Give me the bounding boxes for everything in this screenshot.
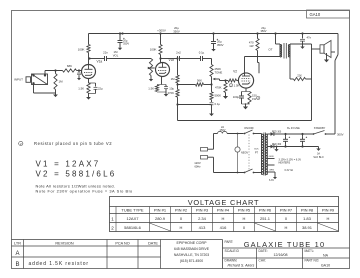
label B+ fuse xyxy=(287,127,300,130)
svg-text:B: B xyxy=(15,262,19,268)
wire cathode to ground xyxy=(88,93,90,96)
svg-text:B+ R FUSE: B+ R FUSE xyxy=(287,127,300,130)
svg-text:645 MASSMAN DRIVE: 645 MASSMAN DRIVE xyxy=(174,247,210,251)
capacitor 10u V1b cathode bypass xyxy=(164,86,168,88)
svg-text:413: 413 xyxy=(199,225,206,230)
svg-text:TONE: TONE xyxy=(215,71,223,75)
wire ground bus xyxy=(284,145,318,147)
svg-text:Note For 230V operation Fuse: Note For 230V operation Fuse = 3A Slo Bl… xyxy=(36,189,133,194)
wire V2 plate to OT primary xyxy=(245,57,281,77)
svg-text:NEON: NEON xyxy=(241,151,248,154)
wire center tap stub xyxy=(276,146,278,148)
label heater 6.3V xyxy=(269,179,274,182)
ground power supply xyxy=(313,147,323,159)
svg-text:GA10: GA10 xyxy=(310,12,321,17)
switch SW2 standby xyxy=(313,133,315,135)
capacitor 47n snubber xyxy=(302,34,304,39)
node B+ junctions xyxy=(121,32,303,34)
capacitor 100u 350V filter A xyxy=(285,136,287,139)
svg-text:PIN #4: PIN #4 xyxy=(217,208,230,213)
resistor 100K V1b plate xyxy=(159,45,162,55)
ground grid capacitor xyxy=(77,76,81,80)
svg-text:RED 300: RED 300 xyxy=(272,144,282,146)
svg-text:350V: 350V xyxy=(123,42,129,46)
svg-text:BLK: BLK xyxy=(254,149,259,151)
svg-text:GRN: GRN xyxy=(269,156,274,158)
wire filter cap 2 lower xyxy=(213,46,215,48)
wire tone cap to tone pot xyxy=(206,59,212,63)
wire OT secondary top to speaker xyxy=(290,44,312,79)
svg-text:300V: 300V xyxy=(337,133,344,137)
label heater current xyxy=(285,169,294,172)
ground tone network xyxy=(209,112,214,117)
svg-text:V2 = 5881/6L6: V2 = 5881/6L6 xyxy=(36,170,117,179)
resistor 470 5W screen xyxy=(256,39,259,51)
potentiometer 250K tone xyxy=(211,59,213,65)
ground snubber xyxy=(300,45,304,49)
svg-text:+305V: +305V xyxy=(157,29,166,33)
wire cathode net to ground xyxy=(245,103,247,105)
wire B+ raw rail xyxy=(284,133,313,135)
resistor 1.5K V1a cathode xyxy=(87,83,90,93)
svg-text:PART:: PART: xyxy=(225,240,234,244)
svg-text:100K: 100K xyxy=(150,48,157,52)
svg-text:VOLTAGE CHART: VOLTAGE CHART xyxy=(188,198,260,207)
svg-text:PIN #8: PIN #8 xyxy=(301,208,314,213)
fuse F1 2A 250V xyxy=(218,131,228,133)
svg-text:0.1µ: 0.1µ xyxy=(215,102,221,106)
ground heater tap xyxy=(273,175,277,179)
svg-text:V1a: V1a xyxy=(97,60,103,64)
svg-text:PIN #6: PIN #6 xyxy=(259,208,272,213)
wire V2 cathode xyxy=(245,88,247,91)
wire fuse to switch xyxy=(227,133,243,135)
input jack label xyxy=(14,78,23,82)
resistor 470K V2 grid leak xyxy=(224,79,226,81)
node unused xyxy=(237,120,239,122)
ground V2 cathode xyxy=(243,105,248,110)
svg-text:NA: NA xyxy=(323,254,329,258)
switch SW1 power bottom pole xyxy=(244,172,246,174)
svg-text:EPIPHONE CORP: EPIPHONE CORP xyxy=(177,241,208,245)
svg-text:1.83: 1.83 xyxy=(303,216,312,221)
wire B+ rail from filter to preamp plates xyxy=(89,34,339,135)
wire PT secondary HV top xyxy=(267,131,282,134)
wire speaker return xyxy=(326,53,328,58)
svg-text:OT: OT xyxy=(268,48,272,52)
wire grid stopper to V2 xyxy=(237,80,239,82)
voltage chart table xyxy=(110,197,339,232)
resistor 56K tone bridge xyxy=(196,83,204,86)
svg-text:100µ: 100µ xyxy=(233,95,240,99)
capacitor 0.1u tone leg xyxy=(211,100,213,102)
svg-text:VOL: VOL xyxy=(113,54,119,58)
svg-text:PART NO:: PART NO: xyxy=(305,259,320,263)
node +305V label xyxy=(157,29,166,33)
wire V1a plate to volume pot xyxy=(88,57,151,59)
svg-text:CHK:: CHK: xyxy=(259,259,267,263)
wire V1b cathode xyxy=(161,77,163,85)
wire PT secondary HV bottom xyxy=(267,144,282,147)
svg-text:(615) 871-4500: (615) 871-4500 xyxy=(180,259,203,263)
svg-text:MAT'L:: MAT'L: xyxy=(305,249,315,253)
resistor 100K V1a plate xyxy=(87,45,90,53)
svg-text:470K: 470K xyxy=(215,86,222,90)
svg-text:V1 = 12AX7: V1 = 12AX7 xyxy=(36,160,101,169)
transformer T2 output xyxy=(279,45,281,58)
svg-text:STANDBY: STANDBY xyxy=(314,127,326,130)
title block frame xyxy=(222,240,224,269)
svg-text:PIN #2: PIN #2 xyxy=(175,208,188,213)
svg-text:470K: 470K xyxy=(167,91,174,95)
wire filter cap 2 branch xyxy=(212,32,214,39)
wire V1b plate to 100K xyxy=(160,55,162,63)
svg-text:38.91: 38.91 xyxy=(302,225,313,230)
svg-text:6.3V 3A: 6.3V 3A xyxy=(285,169,294,172)
wiper volume pot V1b grid xyxy=(148,67,151,69)
svg-text:H: H xyxy=(327,216,330,221)
svg-text:350V: 350V xyxy=(173,30,180,34)
svg-text:1W: 1W xyxy=(252,97,257,101)
wire feedback run xyxy=(178,120,312,122)
svg-text:100K: 100K xyxy=(78,48,85,52)
wire V1a cathode xyxy=(88,79,90,84)
wire feedback drop xyxy=(177,105,179,121)
svg-text:RED 300: RED 300 xyxy=(272,131,282,133)
heater winding taps xyxy=(267,158,274,160)
svg-text:DRAWN:: DRAWN: xyxy=(225,259,238,263)
svg-text:PIN #1: PIN #1 xyxy=(154,208,167,213)
label screen node rating xyxy=(260,26,266,33)
label rail rating xyxy=(173,26,180,33)
svg-text:60Hz: 60Hz xyxy=(194,165,201,169)
wire into V1a grid xyxy=(77,69,82,71)
svg-text:500K: 500K xyxy=(215,94,222,98)
lamp NE1 pilot xyxy=(237,134,239,147)
ground V1b cathode xyxy=(164,92,169,97)
wire filter cap 1 lower xyxy=(119,45,121,47)
svg-text:250V: 250V xyxy=(220,129,226,132)
svg-text:68K: 68K xyxy=(67,64,72,68)
switch SW1 power top pole xyxy=(244,133,246,135)
svg-text:PIN #3: PIN #3 xyxy=(196,208,209,213)
ground grid leak xyxy=(223,94,228,99)
capacitor 100u V2 cathode bypass xyxy=(241,93,243,96)
wire feedback from OT secondary xyxy=(290,57,294,79)
svg-text:47n: 47n xyxy=(307,36,312,40)
svg-text:120V: 120V xyxy=(194,161,201,165)
wire feedback to preamp xyxy=(306,79,312,121)
svg-text:Resistor placed on pin 5 tube: Resistor placed on pin 5 tube V2 xyxy=(34,141,112,146)
mains plug P1 xyxy=(201,148,208,152)
capacitor 20u 350V filter 2 xyxy=(213,39,215,42)
resistor 1.5K V1b cathode xyxy=(157,84,166,86)
svg-text:REVISION: REVISION xyxy=(55,242,73,246)
svg-text:Richard S. Akers: Richard S. Akers xyxy=(228,264,255,268)
capacitor 22n coupling V1a xyxy=(102,58,105,60)
capacitor 0.1u tone branch B xyxy=(198,58,201,60)
svg-text:LTR: LTR xyxy=(14,242,21,246)
svg-text:10µ: 10µ xyxy=(169,86,174,90)
svg-text:PIN #5: PIN #5 xyxy=(238,208,251,213)
triode V1b 12AX7 xyxy=(156,63,170,77)
svg-text:PIN #9: PIN #9 xyxy=(322,208,335,213)
wire tone network bottom xyxy=(176,103,211,105)
capacitor 100u 350V filter B xyxy=(302,136,304,139)
resistor 500K tone leg xyxy=(210,92,213,100)
svg-text:GRN: GRN xyxy=(269,170,274,172)
svg-text:PT: PT xyxy=(255,151,259,155)
svg-text:0.1µ: 0.1µ xyxy=(199,51,205,55)
capacitor 20u 350V filter 1 xyxy=(119,38,121,41)
svg-text:251.1: 251.1 xyxy=(260,216,271,221)
wire 1M branch xyxy=(55,71,57,94)
wire wiper to V2 grid stopper xyxy=(220,80,229,82)
wiper tone pot to V2 xyxy=(213,78,216,80)
svg-text:6.3V: 6.3V xyxy=(269,179,274,182)
diode D1 rectifier xyxy=(269,133,271,135)
svg-text:12AX7: 12AX7 xyxy=(126,216,139,221)
ground V1a cathode xyxy=(86,95,91,100)
wire V1a plate branch xyxy=(88,34,90,65)
svg-text:SCALE:D: SCALE:D xyxy=(225,249,240,253)
potentiometer 1M volume xyxy=(149,59,152,76)
svg-text:A: A xyxy=(15,251,19,257)
ground center tap xyxy=(274,147,278,151)
svg-text:1.5K: 1.5K xyxy=(234,84,240,88)
capacitor 22u V1a cathode bypass xyxy=(89,82,96,84)
svg-text:TUBE TYPE: TUBE TYPE xyxy=(121,208,143,213)
svg-text:PIN #7: PIN #7 xyxy=(280,208,293,213)
note circled 2 resistor placement xyxy=(19,141,23,145)
svg-text:350V: 350V xyxy=(260,29,266,33)
wire filter cap branch xyxy=(119,32,121,38)
revision table xyxy=(12,239,223,241)
drawing number box GA10 xyxy=(307,10,350,18)
svg-text:added 1.5K resistor: added 1.5K resistor xyxy=(29,261,89,267)
ground speaker xyxy=(324,58,329,63)
transformer T1 power xyxy=(261,134,263,175)
input jack J1 xyxy=(32,74,48,85)
svg-text:2.34: 2.34 xyxy=(198,216,207,221)
label V2 xyxy=(233,70,237,74)
wire screen supply xyxy=(258,34,260,74)
resistor 1M tone network upper xyxy=(176,57,178,59)
resistor 1.5K V2 grid stopper note 2 xyxy=(228,79,237,82)
svg-text:HEATERS: HEATERS xyxy=(279,162,291,165)
resistor 470K tone network lower xyxy=(177,83,179,90)
label V1b xyxy=(169,58,175,62)
svg-text:INPUT: INPUT xyxy=(14,78,23,82)
note marker 2 at cathode resistor xyxy=(257,96,260,100)
label heater voltage xyxy=(279,158,302,164)
wire plate to tone caps xyxy=(159,57,197,59)
ground 1M resistor xyxy=(53,93,58,98)
svg-text:22n: 22n xyxy=(103,51,108,55)
label mains voltage xyxy=(194,161,201,169)
svg-text:H: H xyxy=(243,216,246,221)
wire V1b plate branch xyxy=(160,34,162,63)
wire switch to PT primary bottom xyxy=(254,172,262,173)
wire mains neutral xyxy=(214,157,245,172)
svg-text:1M: 1M xyxy=(59,80,64,84)
capacitor 47p grid to ground xyxy=(78,71,80,73)
svg-text:12/16/08: 12/16/08 xyxy=(274,253,288,257)
ground volume pot xyxy=(149,77,153,81)
speaker LS1 xyxy=(320,45,324,53)
pentode V2 5881/6L6 xyxy=(238,73,253,88)
ground filter cap 1 xyxy=(118,46,122,50)
resistor 22K feedback xyxy=(294,77,306,80)
svg-text:2n2: 2n2 xyxy=(176,51,181,55)
label volume pot value xyxy=(113,50,119,57)
svg-text:22µ: 22µ xyxy=(98,87,103,91)
svg-text:SLO BLO: SLO BLO xyxy=(313,156,323,159)
ground filter cap 2 xyxy=(211,47,215,51)
svg-text:V2: V2 xyxy=(233,70,237,74)
svg-text:1M: 1M xyxy=(171,77,176,81)
svg-text:1.5K: 1.5K xyxy=(148,87,154,91)
svg-text:416: 416 xyxy=(220,225,227,230)
wire standby to B+ riser xyxy=(326,133,344,137)
svg-text:GA10: GA10 xyxy=(321,264,330,268)
svg-text:PCA NO: PCA NO xyxy=(115,242,129,246)
svg-text:H: H xyxy=(180,225,183,230)
svg-text:5881/6L6: 5881/6L6 xyxy=(124,225,141,230)
diode D2 rectifier xyxy=(269,146,271,148)
svg-text:DATE: DATE xyxy=(148,242,158,246)
triode V1a 12AX7 xyxy=(82,65,96,79)
svg-text:NASHVILLE, TN 37203: NASHVILLE, TN 37203 xyxy=(174,253,209,257)
resistor 1M input load xyxy=(54,74,57,90)
wire mains hot xyxy=(214,134,218,150)
resistor 68K grid stopper V1a xyxy=(63,69,77,72)
svg-text:DATE:: DATE: xyxy=(259,249,268,253)
wire tone pot to lower leg xyxy=(210,77,212,92)
svg-text:350V: 350V xyxy=(217,43,224,47)
svg-text:280.9: 280.9 xyxy=(155,216,166,221)
svg-text:GALAXIE TUBE 10: GALAXIE TUBE 10 xyxy=(244,240,326,249)
svg-text:ON/OFF: ON/OFF xyxy=(244,126,254,130)
svg-text:56K: 56K xyxy=(197,79,202,83)
wire jack sleeve return xyxy=(34,83,56,93)
label V1a xyxy=(97,60,103,64)
capacitor 2n2 tone branch A xyxy=(175,58,178,60)
svg-text:H: H xyxy=(285,225,288,230)
svg-text:H: H xyxy=(222,216,225,221)
svg-text:1.5K: 1.5K xyxy=(78,87,84,91)
wire switch to PT primary top xyxy=(254,134,262,135)
wire cathode net down xyxy=(165,91,167,94)
resistor 150 1W V2 cathode xyxy=(242,91,250,93)
wire jack tip to grid resistor xyxy=(45,69,63,75)
svg-text:22K: 22K xyxy=(297,74,302,78)
svg-text:1W: 1W xyxy=(249,44,254,48)
